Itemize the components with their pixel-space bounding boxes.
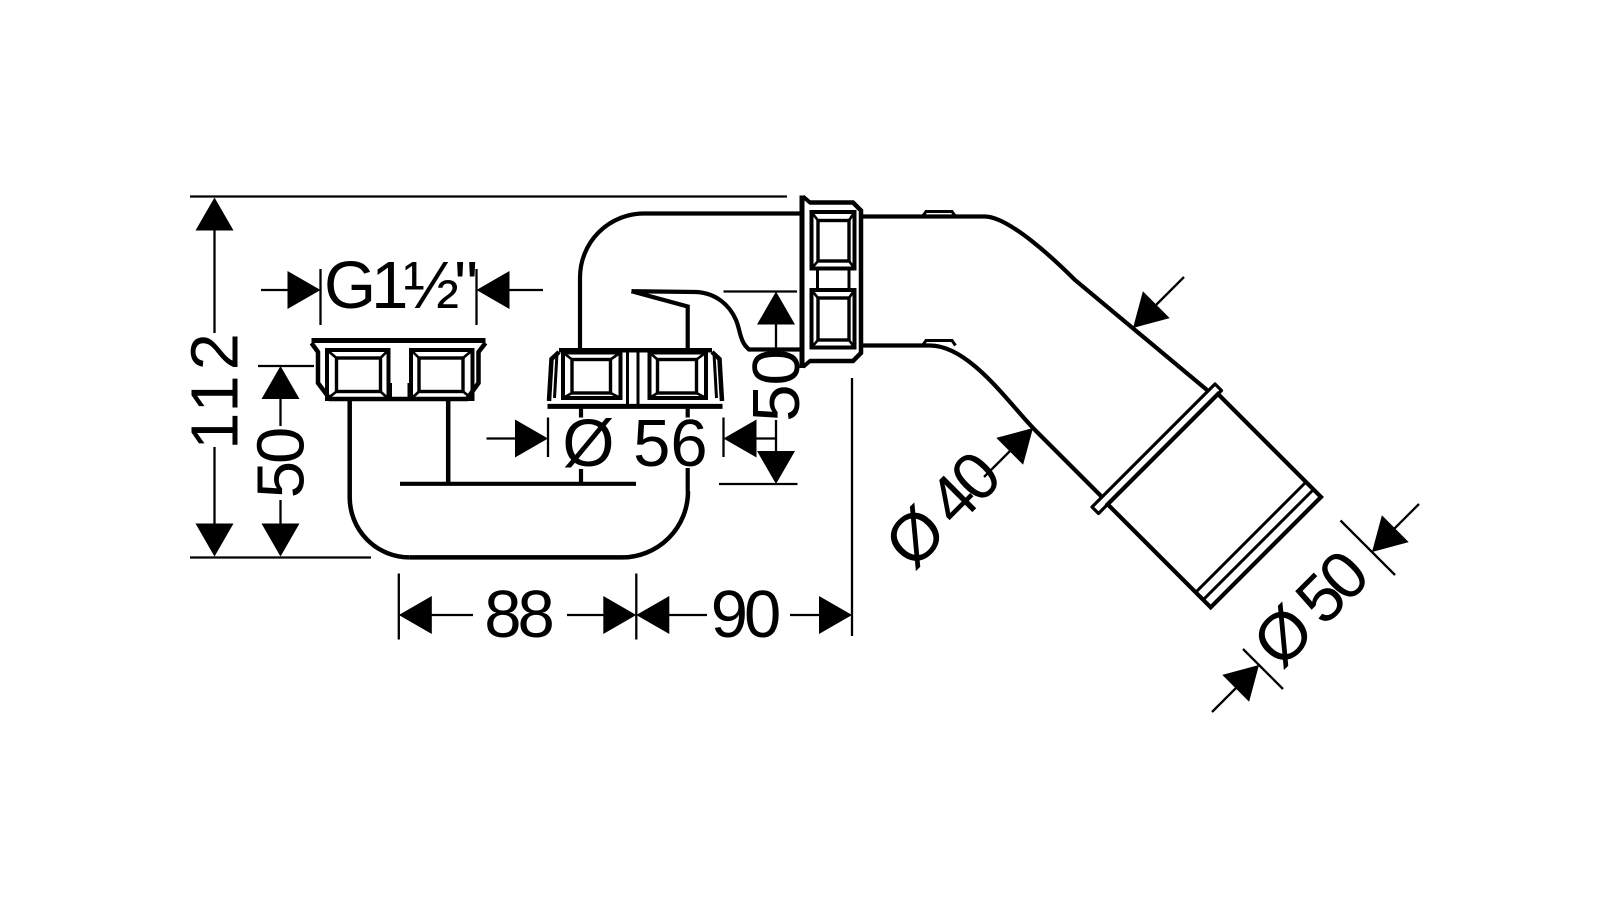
- nut N2 middle outer outline: [549, 352, 722, 401]
- dimension 50 left arrow down: [262, 524, 300, 557]
- dimension 50 right text: [739, 349, 814, 422]
- dimension D56 right tick: [722, 418, 724, 458]
- dimension D40 upper arrow: [1133, 291, 1170, 328]
- nut N2 middle end slants: [555, 354, 717, 399]
- dimension 88 right tail: [567, 614, 605, 616]
- dimension 112 line upper segment: [213, 229, 215, 333]
- nut N2 middle top edge: [559, 348, 712, 353]
- dimension D56 right arrow: [724, 420, 757, 458]
- nut N3 big bridge slots: [818, 269, 850, 291]
- nut N2 stub right upper: [686, 409, 690, 418]
- dimension 50 right arrow up: [757, 292, 795, 325]
- nut N3 big window A bevels: [812, 212, 855, 269]
- dimension 50 left line upper segment: [279, 398, 281, 426]
- trap inner top line: [400, 482, 636, 486]
- dimension 50 right arrow down: [757, 451, 795, 484]
- svg-text:50: 50: [244, 429, 319, 498]
- nut N1 left window A inner: [337, 358, 381, 392]
- nut N2 middle window A inner: [572, 360, 611, 394]
- dimension G1 1/2 inch left tick: [319, 269, 321, 325]
- nut N2 middle window A outer: [563, 353, 621, 399]
- nut N2 middle window B inner: [658, 360, 697, 394]
- dimension 90 left tail: [668, 614, 707, 616]
- dimension D56 right tail: [755, 437, 776, 439]
- trap bottom left arc: [350, 497, 410, 557]
- dimension 50 right line upper segment: [775, 323, 777, 351]
- nut N2 middle window A bevels: [563, 353, 621, 399]
- nut N3 big window B outer: [812, 290, 855, 348]
- dimension 112 line lower segment: [213, 447, 215, 525]
- dimension D50 lower extension: [1243, 649, 1283, 689]
- dimension 112 text: [178, 328, 253, 450]
- dimension 90 right arrow: [819, 596, 852, 634]
- dimension 88 right arrow: [603, 596, 636, 634]
- outlet pipe top break tab: [923, 212, 956, 217]
- dimension 90 left arrow: [636, 596, 669, 634]
- dimension G1 1/2 inch right tick: [475, 269, 477, 325]
- dimension G1 1/2 inch left arrow: [288, 271, 321, 309]
- dimension G1 1/2 inch left tail: [261, 289, 289, 291]
- nut N2 middle window B bevels: [650, 353, 707, 399]
- dimension D50 lower arrow: [1222, 665, 1259, 702]
- dimension 112 extension line top: [190, 195, 787, 197]
- nut N1 left window A bevels: [327, 350, 389, 399]
- nut N2 stub left lower: [579, 469, 583, 482]
- dimension 112 arrow down: [196, 524, 234, 557]
- nut N1 left outer outline: [312, 343, 486, 399]
- nut N3 big window A inner: [818, 221, 849, 262]
- dimension D56 left tail: [487, 437, 517, 439]
- outlet pipe top wall: [861, 217, 1207, 391]
- dimension 50 right line lower segment: [775, 420, 777, 452]
- dimension 112 arrow up: [196, 198, 234, 231]
- dimension 90 right tail: [790, 614, 821, 616]
- dimension 50 right extension bottom: [719, 483, 798, 485]
- nut N3 big flange top bevel: [803, 197, 811, 204]
- svg-text:90: 90: [711, 577, 779, 652]
- dimension G1 1/2 inch right tail: [508, 289, 543, 291]
- outlet pipe bottom break tab: [923, 341, 956, 346]
- dimension 50 right extension top: [724, 290, 798, 292]
- tailpipe right wall: [446, 399, 451, 482]
- sleeve body: [1108, 394, 1321, 607]
- dimension D56 left arrow: [515, 420, 548, 458]
- nut N3 big flange bottom bevel: [803, 361, 811, 368]
- outlet pipe bottom wall: [861, 346, 1103, 499]
- nut N3 big window B bevels: [812, 290, 855, 348]
- dimension D50 lower tail: [1212, 688, 1236, 712]
- nut N1 left window B inner: [419, 358, 463, 392]
- dimension D50 upper extension: [1341, 521, 1396, 576]
- dimension G1 1/2 inch right arrow: [477, 271, 510, 309]
- nut N3 big window B inner: [818, 298, 849, 340]
- dimension D56 left tick: [547, 418, 549, 458]
- nut N1 left bridge slots: [391, 383, 410, 399]
- dimension 88-90 right extension: [851, 378, 853, 636]
- sleeve groove 2: [1203, 490, 1313, 600]
- trap bottom outer line: [410, 555, 622, 560]
- nut N2 middle window B outer: [650, 353, 707, 399]
- tailpipe left wall: [347, 399, 352, 497]
- spout lower edge: [632, 291, 688, 349]
- nut N1 left window B outer: [411, 350, 473, 399]
- nut N3 big body outline: [810, 203, 862, 362]
- dimension 88 left tail: [430, 614, 473, 616]
- nut N3 big window A outer: [812, 212, 855, 269]
- riser wall below text: [686, 468, 690, 492]
- svg-text:Ø 56: Ø 56: [562, 406, 707, 481]
- dimension 50 left line lower segment: [279, 500, 281, 525]
- sleeve groove 1: [1196, 482, 1306, 592]
- dimension 88 left arrow: [399, 596, 432, 634]
- spout upper edge: [632, 291, 800, 349]
- coupling collar: [1092, 384, 1222, 514]
- nut N3 big flange plate: [800, 196, 805, 369]
- dimension D40 lower arrow: [996, 428, 1033, 465]
- dimension 50 left extension line top: [258, 365, 314, 367]
- svg-text:88: 88: [484, 577, 552, 652]
- trap bottom right arc: [622, 491, 688, 557]
- elbow outer wall: [580, 214, 800, 350]
- dimension 88-90 middle tick: [635, 574, 637, 640]
- svg-text:G1½": G1½": [324, 248, 475, 323]
- nut N1 left window A outer: [327, 350, 389, 399]
- dimension 112 extension line bottom: [190, 556, 371, 558]
- dimension D40 upper tail: [1155, 277, 1184, 306]
- nut N1 left top bar: [312, 338, 486, 343]
- svg-text:112: 112: [178, 328, 253, 450]
- dimension D50 text: [1239, 538, 1383, 682]
- dimension 88-90 left tick: [398, 574, 400, 640]
- nut N2 middle flange bar: [548, 404, 723, 409]
- nut N2 middle center slots: [628, 353, 639, 405]
- dimension D40 lower tail: [984, 450, 1011, 477]
- dimension D50 upper tail: [1394, 504, 1419, 529]
- dimension D40 text: [871, 439, 1015, 583]
- dimension D50 upper arrow: [1372, 515, 1409, 552]
- nut N1 left window B bevels: [411, 350, 473, 399]
- nut N2 stub left upper: [579, 409, 583, 418]
- dimension 50 left arrow up: [262, 366, 300, 399]
- dimension 50 left text: [244, 429, 319, 498]
